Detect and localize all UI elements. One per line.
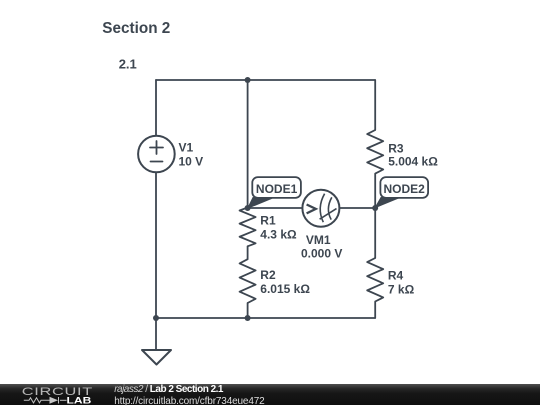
resistor R1 — [240, 208, 256, 247]
wire mid horizontal NODE1 to voltmeter — [248, 207, 303, 209]
svg-text:V1: V1 — [179, 141, 194, 155]
svg-text:NODE2: NODE2 — [384, 182, 426, 196]
svg-text:0.000 V: 0.000 V — [301, 246, 342, 260]
wire R4 top stub — [374, 208, 376, 258]
svg-text:LAB: LAB — [67, 395, 92, 405]
svg-text:R1: R1 — [260, 214, 276, 228]
svg-text:NODE1: NODE1 — [256, 182, 298, 196]
node NODE1 callout — [248, 177, 301, 208]
svg-text:10 V: 10 V — [179, 154, 204, 168]
svg-text:R4: R4 — [388, 269, 404, 283]
label R1 value — [260, 214, 297, 242]
label VM1 value — [301, 233, 342, 260]
svg-text:2.1: 2.1 — [119, 57, 137, 72]
footer text line 1 — [114, 384, 223, 395]
node junction dot bottom-left — [153, 315, 159, 321]
node junction dot NODE1 — [245, 205, 251, 211]
wire bottom rail — [156, 317, 375, 319]
svg-text:Section 2: Section 2 — [102, 20, 170, 37]
svg-text:6.015 kΩ: 6.015 kΩ — [260, 282, 310, 296]
node junction dot bottom-mid — [245, 315, 251, 321]
resistor R3 — [367, 130, 383, 174]
wire R4 bottom stub — [374, 302, 376, 319]
resistor R2 — [240, 259, 256, 303]
label V1 value — [179, 141, 204, 169]
resistor R4 — [367, 258, 383, 301]
wire R3 top stub — [374, 80, 376, 130]
wire ground stub — [155, 318, 157, 350]
svg-text:R3: R3 — [388, 141, 404, 155]
label R4 value — [388, 269, 415, 297]
wire voltmeter to NODE2 — [340, 207, 376, 209]
node junction dot top — [245, 77, 251, 83]
wire left branch V1 bottom to ground rail — [155, 173, 157, 319]
svg-text:R2: R2 — [260, 268, 276, 282]
svg-text:7 kΩ: 7 kΩ — [388, 283, 415, 297]
voltmeter VM1 — [302, 190, 339, 227]
label R2 value — [260, 268, 310, 296]
wire R3 bottom stub to NODE2 — [374, 174, 376, 208]
voltage source V1 — [138, 136, 175, 173]
CircuitLab logo — [0, 384, 110, 405]
wire top from V1 to R3 branch — [156, 79, 375, 81]
node NODE2 callout — [375, 177, 428, 208]
svg-text:5.004 kΩ: 5.004 kΩ — [388, 155, 438, 169]
wire middle branch top — [247, 80, 249, 208]
wire R2 bottom stub — [247, 303, 249, 318]
svg-text:VM1: VM1 — [306, 233, 331, 247]
wire left branch V1 top — [155, 80, 157, 136]
footer bar — [0, 384, 540, 405]
label R3 value — [388, 141, 438, 168]
footer text line 2 — [114, 396, 264, 407]
svg-text:4.3 kΩ: 4.3 kΩ — [260, 228, 297, 242]
node junction dot NODE2 — [372, 205, 378, 211]
wire R1-R2 interconnect — [247, 246, 249, 259]
ground — [142, 350, 171, 365]
